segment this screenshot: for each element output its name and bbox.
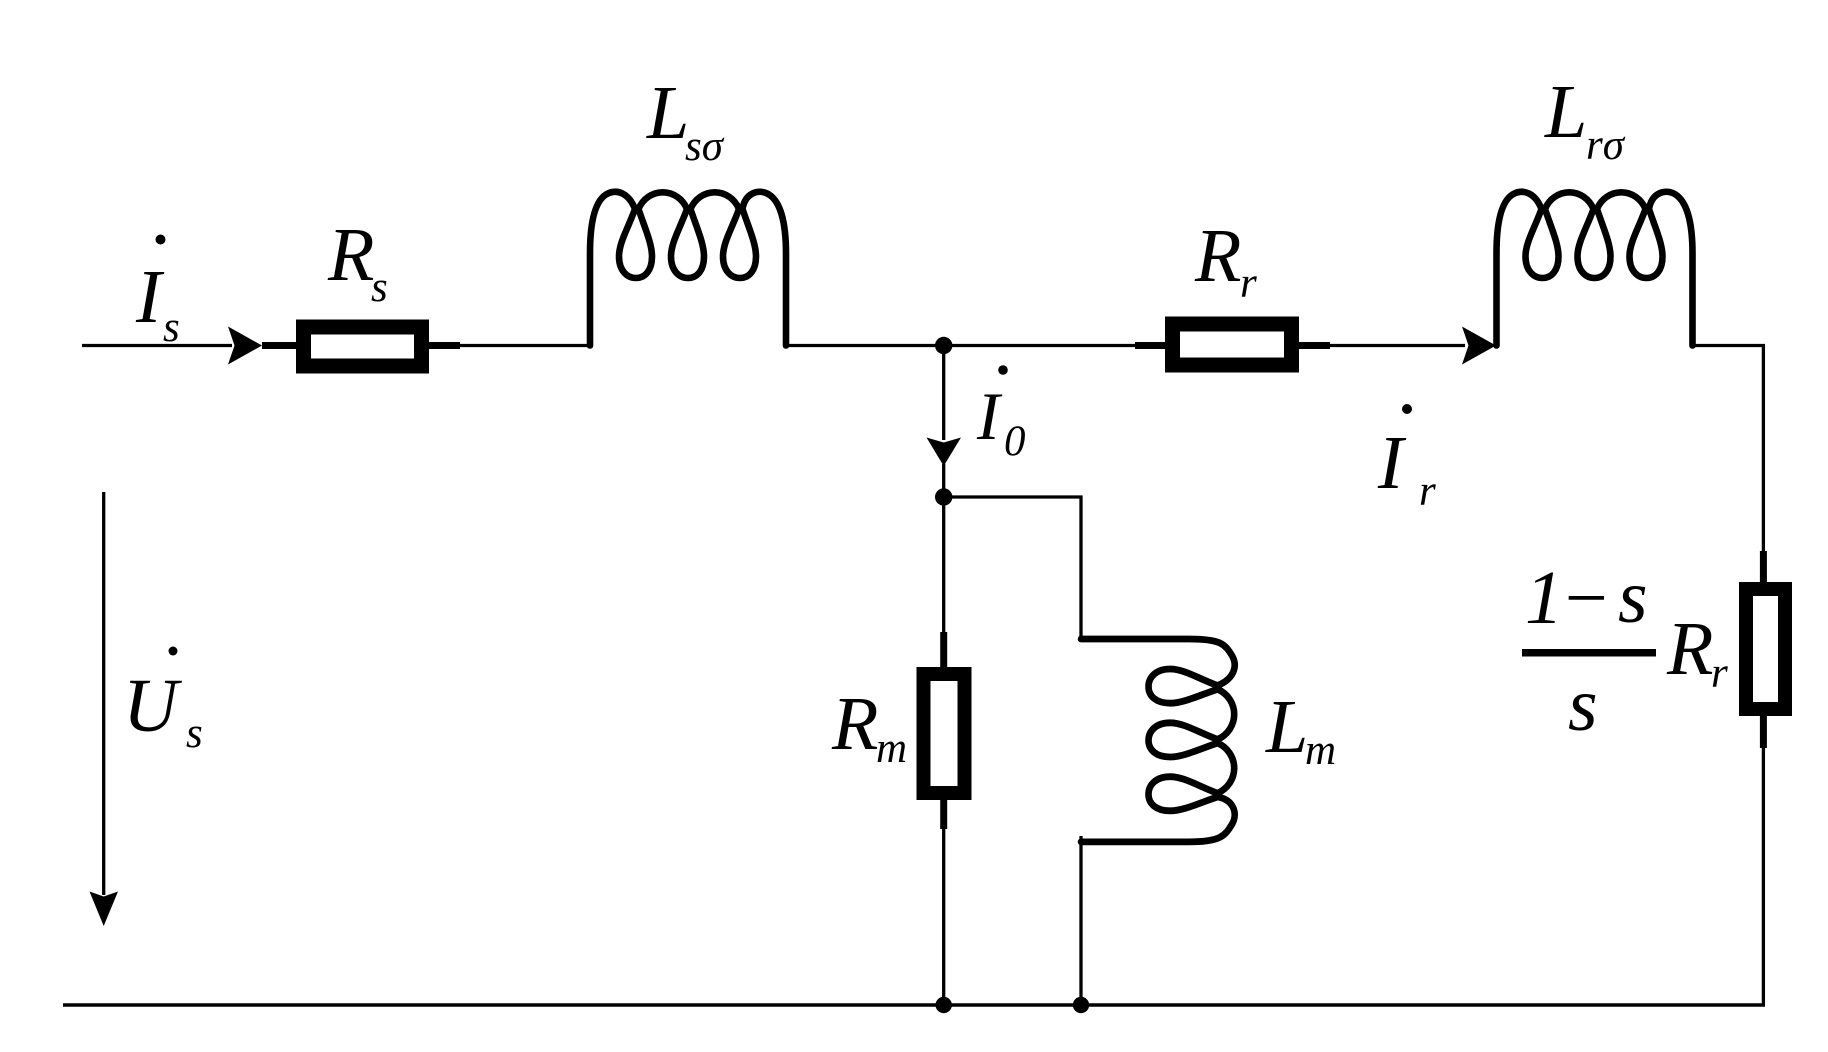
label Rs — [327, 213, 388, 311]
svg-text:r: r — [1240, 260, 1257, 307]
label Is (stator current) — [135, 235, 180, 352]
svg-text:L: L — [1265, 685, 1308, 769]
inductor Lm coil — [1081, 639, 1235, 842]
label Lm — [1265, 685, 1336, 774]
inductor Lso coil — [590, 192, 786, 346]
inductor Lro coil — [1497, 192, 1693, 346]
node junction bottom2 — [1073, 997, 1089, 1013]
label Rr of (1-s)/s Rr — [1666, 607, 1728, 697]
node junction mid — [935, 488, 952, 505]
wire — [1762, 747, 1765, 1005]
arrow Is — [228, 327, 262, 365]
label Lso — [646, 71, 725, 170]
node junction bottom1 — [936, 997, 952, 1013]
wire stub — [262, 342, 297, 349]
svg-text:I: I — [135, 255, 165, 339]
svg-text:m: m — [1305, 727, 1336, 774]
value label (1-s)/s fraction — [1522, 555, 1656, 747]
svg-text:L: L — [646, 71, 689, 155]
svg-text:m: m — [876, 725, 907, 772]
wire — [459, 344, 592, 347]
svg-text:r: r — [1419, 468, 1436, 515]
wire — [942, 346, 945, 441]
svg-text:r: r — [1711, 650, 1728, 697]
svg-text:s: s — [1568, 663, 1598, 747]
arrow Us (down) — [90, 892, 119, 927]
wire — [942, 464, 945, 636]
svg-text:s: s — [1618, 555, 1648, 639]
wire stub — [940, 632, 947, 829]
label Rr — [1194, 214, 1257, 307]
resistor (1-s)/s Rr — [1746, 589, 1785, 709]
arrow I0 (down) — [927, 438, 962, 467]
svg-text:rσ: rσ — [1586, 122, 1626, 169]
wire stub — [428, 342, 460, 349]
svg-text:R: R — [1194, 214, 1241, 298]
svg-text:sσ: sσ — [685, 123, 725, 170]
wire stub — [1760, 551, 1767, 748]
resistor Rr — [1173, 324, 1292, 365]
wire — [1327, 344, 1465, 347]
svg-text:0: 0 — [1004, 418, 1026, 465]
label Us (stator voltage) — [123, 647, 203, 758]
label Ir (rotor current) — [1377, 404, 1436, 515]
svg-text:R: R — [831, 682, 878, 766]
wire stub — [1298, 342, 1330, 349]
svg-text:I: I — [1377, 421, 1407, 505]
resistor Rs — [304, 327, 422, 366]
resistor Rm — [924, 674, 965, 793]
svg-text:s: s — [163, 304, 180, 351]
wire — [942, 799, 945, 1005]
svg-text:R: R — [327, 213, 374, 297]
arrow Ir — [1462, 327, 1496, 365]
svg-text:1: 1 — [1525, 556, 1563, 640]
svg-text:L: L — [1544, 70, 1587, 154]
node junction top — [935, 337, 952, 354]
wire — [1691, 346, 1763, 554]
svg-text:−: − — [1560, 556, 1611, 640]
wire — [82, 344, 232, 347]
wire — [783, 344, 1140, 347]
wire stub — [1135, 342, 1167, 349]
svg-text:U: U — [123, 664, 182, 748]
wire — [944, 497, 1081, 641]
svg-text:s: s — [186, 710, 203, 757]
svg-text:I: I — [976, 378, 1003, 454]
label I0 (magnetizing current) — [976, 365, 1026, 465]
Us arrow line — [102, 492, 105, 895]
label Rm — [831, 682, 907, 772]
svg-text:s: s — [371, 264, 388, 311]
wire (bottom rail) — [63, 1003, 1765, 1007]
svg-text:R: R — [1666, 607, 1713, 691]
wire — [1079, 836, 1082, 1005]
label Lro — [1544, 70, 1626, 169]
